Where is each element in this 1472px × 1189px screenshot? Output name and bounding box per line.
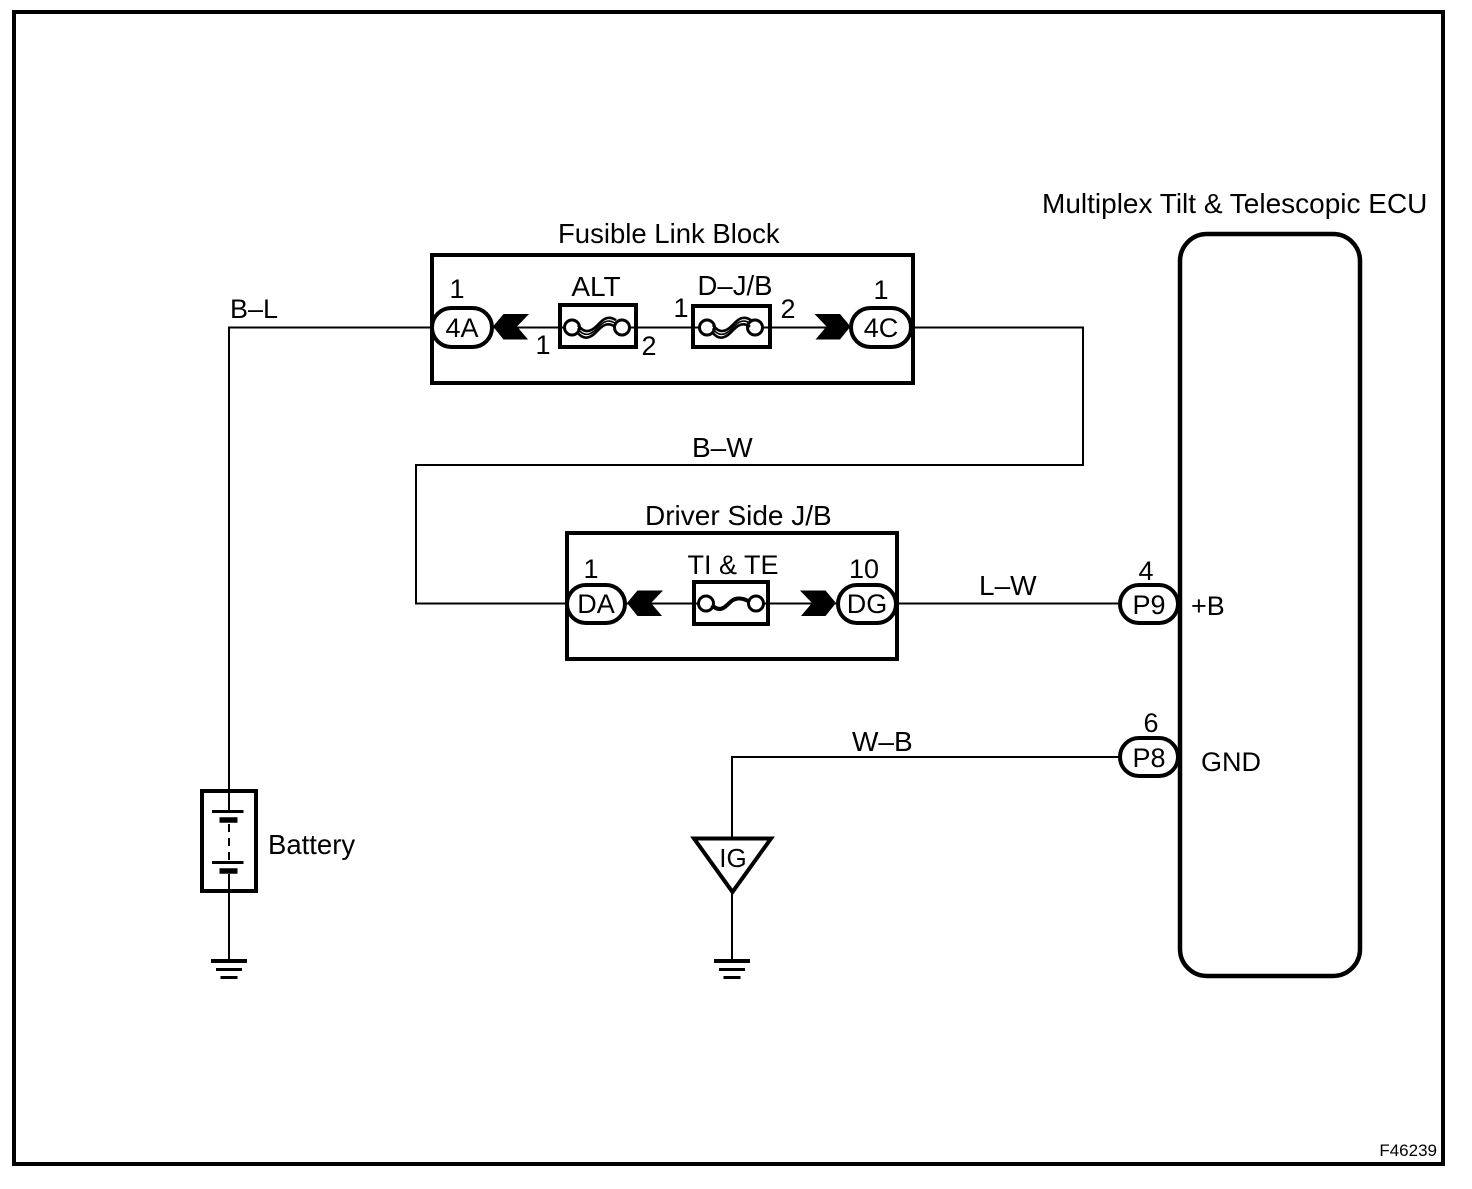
ECU box [1180,234,1360,976]
connector DA [567,585,625,623]
svg-text:DG: DG [847,589,888,619]
svg-text:ALT: ALT [571,271,620,302]
svg-text:L–W: L–W [979,570,1037,601]
svg-text:6: 6 [1143,708,1158,738]
svg-text:Multiplex Tilt & Telescopic EC: Multiplex Tilt & Telescopic ECU [1042,188,1427,219]
wire battery to ground [228,891,230,960]
ground (battery) [211,961,247,978]
svg-text:+B: +B [1191,591,1225,621]
connector 4C [851,308,911,347]
svg-text:D–J/B: D–J/B [698,270,773,301]
connector P9 [1120,585,1178,623]
svg-text:2: 2 [641,331,656,361]
svg-text:P8: P8 [1132,743,1165,773]
driver side J/B box [567,533,897,659]
wire B-L vertical [228,327,230,792]
wire inside driver side J/B (TI&TE to DG) [754,603,838,605]
IG power symbol [694,839,771,893]
wire inside driver side J/B (DA to TI&TE) [625,603,708,605]
connector 4A [432,308,492,347]
wire inside fusible link block (D-J/B to 4C) [753,327,852,329]
svg-text:2: 2 [780,294,795,324]
arrow left (driver side J/B) [627,591,663,617]
svg-text:IG: IG [719,843,746,873]
svg-text:Battery: Battery [268,829,355,860]
wire B-L horizontal [228,327,434,329]
arrow right (driver side J/B) [800,591,836,617]
wire W-B vertical [731,756,733,838]
wire IG to ground [731,892,733,961]
fusible link block box [432,255,913,383]
wire inside fusible link block (ALT to D-J/B) [621,327,708,329]
arrow left (fusible link block) [493,314,529,340]
svg-text:Fusible Link Block: Fusible Link Block [558,218,780,249]
svg-text:P9: P9 [1132,590,1165,620]
svg-text:TI & TE: TI & TE [687,550,778,580]
svg-text:1: 1 [535,330,550,360]
svg-text:B–W: B–W [692,432,753,463]
wire L-W [896,603,1120,605]
svg-text:1: 1 [673,293,688,323]
svg-text:F46239: F46239 [1379,1141,1437,1160]
wire W-B horizontal [731,756,1120,758]
wire 4C to B-W corner [416,328,1083,604]
svg-text:GND: GND [1201,747,1261,777]
connector P8 [1120,738,1178,776]
arrow right (fusible link block) [815,314,851,340]
svg-text:1: 1 [873,275,888,305]
svg-text:10: 10 [849,554,879,584]
svg-text:4C: 4C [864,313,899,343]
fusible link D-J/B [693,306,770,347]
ground (IG) [714,961,750,978]
wire inside fusible link block (4A to ALT) [492,327,573,329]
svg-text:4A: 4A [445,313,478,343]
fusible link ALT [560,305,636,347]
svg-text:DA: DA [577,589,615,619]
svg-text:1: 1 [449,274,464,304]
svg-text:B–L: B–L [230,294,278,324]
svg-text:4: 4 [1138,556,1153,586]
fuse TI & TE [694,582,768,624]
svg-text:1: 1 [583,554,598,584]
svg-text:W–B: W–B [852,726,913,757]
battery [202,791,256,891]
connector DG [838,585,896,623]
svg-text:Driver Side J/B: Driver Side J/B [645,500,832,531]
